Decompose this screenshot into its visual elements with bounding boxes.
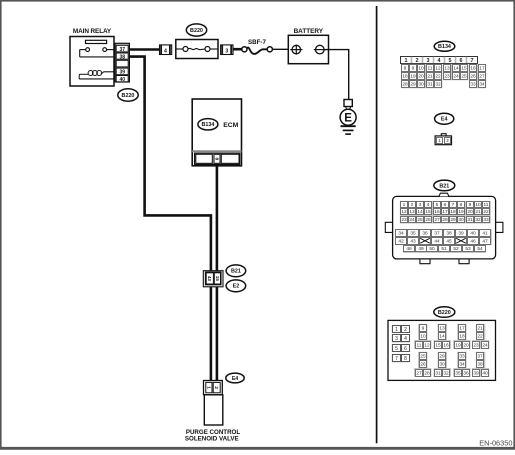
svg-text:BATTERY: BATTERY	[294, 28, 324, 35]
svg-text:13: 13	[444, 66, 450, 72]
main relay box	[70, 37, 114, 87]
pinout B21 lower grid	[395, 229, 491, 253]
svg-text:18: 18	[459, 334, 465, 340]
svg-text:11: 11	[484, 202, 489, 208]
pinout oval B134	[434, 41, 455, 51]
svg-text:6: 6	[404, 346, 407, 352]
svg-text:1: 1	[403, 202, 406, 208]
svg-text:21: 21	[477, 326, 483, 332]
solenoid pin 1	[206, 386, 211, 389]
svg-text:27: 27	[479, 74, 485, 80]
svg-text:22: 22	[477, 334, 483, 340]
svg-text:51: 51	[441, 246, 447, 252]
solenoid connector E4	[204, 381, 223, 395]
svg-text:40: 40	[482, 371, 488, 377]
svg-text:13: 13	[409, 209, 415, 215]
pinout oval E4	[435, 113, 454, 124]
svg-text:29: 29	[410, 82, 416, 88]
pin blank cell	[116, 60, 128, 67]
svg-text:5: 5	[449, 58, 452, 64]
svg-text:50: 50	[429, 246, 435, 252]
svg-text:29: 29	[450, 217, 456, 223]
ECM label	[223, 122, 238, 129]
wire SBF-7 to battery	[272, 48, 288, 50]
svg-text:14: 14	[439, 334, 445, 340]
svg-text:3: 3	[427, 58, 430, 64]
svg-text:21: 21	[475, 209, 481, 215]
pin 38	[116, 53, 128, 60]
svg-text:B220: B220	[438, 310, 451, 316]
svg-text:39: 39	[120, 70, 126, 76]
ground E	[340, 100, 356, 135]
pinout oval B21	[434, 180, 455, 191]
svg-text:B134: B134	[438, 44, 451, 50]
svg-text:40: 40	[120, 77, 126, 83]
svg-text:17: 17	[479, 66, 485, 72]
svg-text:16: 16	[434, 209, 440, 215]
svg-text:2: 2	[411, 202, 414, 208]
svg-text:39: 39	[473, 371, 479, 377]
oval B21 (inline)	[226, 265, 246, 277]
svg-text:E: E	[344, 113, 352, 125]
svg-text:42: 42	[398, 239, 404, 245]
pin 39	[116, 68, 128, 76]
svg-text:22: 22	[435, 74, 441, 80]
svg-text:B21: B21	[231, 269, 241, 275]
purge control solenoid valve label	[185, 429, 240, 443]
svg-text:24: 24	[409, 217, 415, 223]
svg-text:SBF-7: SBF-7	[248, 39, 266, 46]
svg-text:53: 53	[465, 246, 471, 252]
pin 37	[116, 45, 128, 53]
svg-text:4: 4	[164, 49, 167, 55]
svg-text:32: 32	[443, 371, 449, 377]
svg-text:2: 2	[446, 138, 449, 144]
main relay slot bar	[86, 40, 107, 43]
svg-text:10: 10	[420, 334, 426, 340]
svg-text:40: 40	[470, 231, 476, 237]
svg-text:11: 11	[428, 66, 433, 72]
svg-text:24: 24	[482, 343, 488, 349]
ECM pin 8	[213, 154, 220, 163]
svg-text:27: 27	[416, 371, 422, 377]
svg-text:7: 7	[452, 202, 455, 208]
wire fuse to SBF-7	[233, 48, 242, 51]
svg-text:21: 21	[427, 74, 433, 80]
main relay label	[73, 28, 112, 35]
purge control solenoid valve body	[204, 395, 223, 425]
svg-text:22: 22	[483, 209, 489, 215]
wire ECM pin8 to solenoid (control)	[216, 164, 219, 382]
figure number EN-06350	[479, 439, 512, 448]
pinout oval B220	[434, 307, 455, 318]
svg-text:34: 34	[479, 82, 485, 88]
svg-text:18: 18	[450, 209, 456, 215]
svg-text:MAIN RELAY: MAIN RELAY	[73, 28, 112, 35]
pinout B220 left pin pairs	[392, 325, 410, 363]
svg-text:36: 36	[463, 371, 469, 377]
svg-text:6: 6	[460, 58, 463, 64]
svg-text:B220: B220	[122, 93, 135, 99]
svg-text:3: 3	[419, 202, 422, 208]
svg-text:25: 25	[461, 74, 467, 80]
svg-text:37: 37	[477, 354, 483, 360]
svg-text:30: 30	[439, 362, 445, 368]
pinout E4 connector	[435, 134, 451, 145]
main relay coil	[79, 71, 115, 79]
pinout B220 pin groups	[414, 324, 489, 377]
svg-text:12: 12	[424, 343, 430, 349]
svg-text:39: 39	[458, 231, 464, 237]
svg-text:17: 17	[459, 326, 465, 332]
svg-text:B21: B21	[439, 183, 449, 189]
svg-text:37: 37	[434, 231, 440, 237]
svg-text:35: 35	[410, 231, 416, 237]
svg-text:25: 25	[420, 354, 426, 360]
svg-text:E2: E2	[233, 284, 240, 290]
svg-text:1: 1	[395, 327, 398, 333]
svg-text:27: 27	[434, 217, 440, 223]
svg-text:30: 30	[418, 82, 424, 88]
svg-text:12: 12	[435, 66, 441, 72]
svg-text:SOLENOID VALVE: SOLENOID VALVE	[185, 436, 239, 443]
battery	[288, 35, 328, 63]
svg-text:31: 31	[467, 217, 473, 223]
svg-text:B134: B134	[201, 122, 214, 128]
svg-text:32: 32	[475, 217, 481, 223]
svg-text:8: 8	[404, 66, 407, 72]
ECM box B134	[192, 99, 241, 166]
oval E4 (solenoid)	[226, 373, 244, 383]
svg-text:38: 38	[446, 231, 452, 237]
svg-text:B220: B220	[190, 28, 203, 34]
svg-text:3: 3	[225, 49, 228, 55]
wire relay pin37 to fuse terminal	[129, 48, 160, 51]
svg-text:34: 34	[398, 231, 404, 237]
svg-text:14: 14	[453, 66, 459, 72]
svg-text:14: 14	[417, 209, 423, 215]
svg-text:8: 8	[460, 202, 463, 208]
pinout B21 upper grid	[400, 201, 491, 224]
svg-text:33: 33	[470, 82, 476, 88]
svg-text:38: 38	[477, 362, 483, 368]
svg-text:2: 2	[416, 58, 419, 64]
svg-text:5: 5	[395, 346, 398, 352]
svg-text:2: 2	[404, 327, 407, 333]
svg-text:30: 30	[458, 217, 464, 223]
svg-text:19: 19	[458, 209, 464, 215]
wire relay pin38 to solenoid (power feed)	[129, 57, 211, 382]
svg-text:E4: E4	[232, 376, 238, 382]
svg-text:3: 3	[395, 336, 398, 342]
svg-text:43: 43	[207, 276, 212, 282]
svg-text:7: 7	[395, 356, 398, 362]
svg-text:E4: E4	[441, 117, 448, 123]
svg-text:46: 46	[470, 239, 476, 245]
svg-text:26: 26	[425, 217, 431, 223]
svg-text:26: 26	[470, 74, 476, 80]
svg-text:9: 9	[412, 66, 415, 72]
svg-text:33: 33	[483, 217, 489, 223]
fusible link SBF-7 label	[248, 39, 266, 46]
inline connector pin 15	[214, 273, 220, 284]
svg-text:4: 4	[438, 58, 441, 64]
svg-text:9: 9	[469, 202, 472, 208]
svg-text:20: 20	[418, 74, 424, 80]
svg-text:23: 23	[444, 74, 450, 80]
svg-text:54: 54	[477, 246, 483, 252]
svg-text:35: 35	[455, 371, 461, 377]
svg-text:10: 10	[418, 66, 424, 72]
svg-text:19: 19	[455, 343, 461, 349]
svg-text:26: 26	[420, 362, 426, 368]
svg-text:25: 25	[417, 217, 423, 223]
svg-text:1: 1	[438, 138, 441, 144]
battery label	[294, 28, 324, 35]
svg-text:44: 44	[434, 239, 440, 245]
wire battery negative to ground	[324, 50, 349, 100]
svg-text:7: 7	[471, 58, 474, 64]
svg-text:18: 18	[402, 74, 408, 80]
ECM connector strip	[195, 153, 240, 164]
pinout B21 shell	[385, 193, 503, 264]
svg-text:33: 33	[459, 354, 465, 360]
svg-text:4: 4	[404, 336, 407, 342]
svg-text:15: 15	[435, 343, 441, 349]
svg-text:52: 52	[453, 246, 459, 252]
pinout B220 box	[388, 320, 496, 380]
svg-text:11: 11	[417, 343, 422, 349]
svg-text:49: 49	[418, 246, 424, 252]
svg-text:31: 31	[427, 82, 433, 88]
svg-text:41: 41	[482, 231, 488, 237]
svg-text:6: 6	[444, 202, 447, 208]
svg-text:28: 28	[424, 371, 430, 377]
svg-text:EN-06350: EN-06350	[479, 439, 512, 448]
svg-text:23: 23	[473, 343, 479, 349]
fuse holder oval B220	[186, 24, 206, 36]
oval E2 (inline)	[226, 280, 246, 292]
svg-text:5: 5	[436, 202, 439, 208]
svg-text:1: 1	[405, 58, 408, 64]
svg-text:13: 13	[439, 326, 445, 332]
inline connector pin 43	[206, 273, 213, 284]
main relay pin strip	[115, 43, 129, 82]
svg-text:9: 9	[422, 326, 425, 332]
svg-text:29: 29	[439, 354, 445, 360]
svg-text:32: 32	[435, 82, 441, 88]
svg-text:10: 10	[475, 202, 481, 208]
main relay connector oval B220	[118, 89, 138, 101]
panel divider line	[376, 6, 378, 443]
svg-text:15: 15	[461, 66, 467, 72]
svg-text:37: 37	[120, 47, 126, 53]
svg-text:28: 28	[442, 217, 448, 223]
fusible link SBF-7	[242, 47, 273, 54]
svg-text:45: 45	[446, 239, 452, 245]
main relay contact	[80, 48, 115, 57]
svg-text:4: 4	[427, 202, 430, 208]
svg-text:24: 24	[453, 74, 459, 80]
svg-text:8: 8	[213, 157, 219, 160]
svg-text:36: 36	[422, 231, 428, 237]
svg-text:48: 48	[406, 246, 412, 252]
svg-text:20: 20	[463, 343, 469, 349]
svg-text:ECM: ECM	[223, 122, 238, 129]
svg-text:16: 16	[470, 66, 476, 72]
svg-text:16: 16	[443, 343, 449, 349]
svg-text:15: 15	[215, 276, 220, 282]
svg-text:28: 28	[402, 82, 408, 88]
svg-text:12: 12	[401, 209, 407, 215]
ECM oval B134	[198, 119, 218, 130]
solenoid pin 2	[214, 386, 219, 389]
fuse terminal 3	[221, 45, 233, 55]
svg-text:47: 47	[482, 239, 488, 245]
svg-text:43: 43	[410, 239, 416, 245]
fuse No.4 body	[176, 40, 218, 59]
inline connector B21/E2 shell	[203, 271, 223, 287]
svg-text:23: 23	[401, 217, 407, 223]
svg-text:17: 17	[442, 209, 448, 215]
svg-text:38: 38	[120, 54, 126, 60]
svg-text:15: 15	[425, 209, 431, 215]
pin 40	[116, 76, 128, 83]
fuse terminal 4	[160, 45, 172, 55]
pinout B134 grid	[401, 57, 487, 89]
svg-text:19: 19	[410, 74, 416, 80]
svg-text:8: 8	[404, 356, 407, 362]
svg-text:31: 31	[435, 371, 441, 377]
svg-text:34: 34	[459, 362, 465, 368]
svg-text:20: 20	[467, 209, 473, 215]
